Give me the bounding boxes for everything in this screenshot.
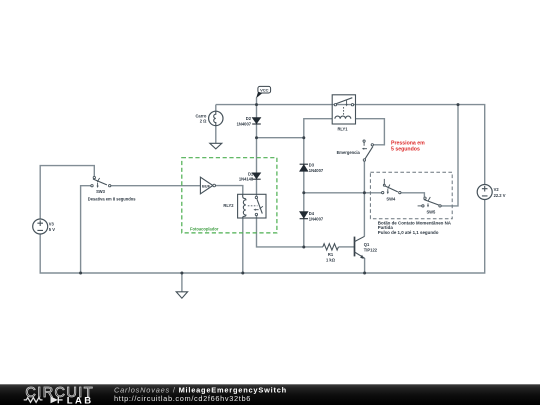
svg-text:SW4: SW4 [386, 197, 396, 202]
wire lamp top stub [215, 105, 217, 112]
wire RLY2 switch bottom to R1 [257, 215, 324, 247]
wire node D2 cathode to D3 anode column [257, 137, 304, 139]
wire Emergencia bottom down to Q1 collector [363, 161, 365, 236]
svg-text:1N4007: 1N4007 [309, 216, 324, 221]
wire RLY1 coil right pin to Emergencia switch [356, 119, 385, 145]
svg-text:V3: V3 [49, 222, 55, 227]
wire RLY1 coil left pin down through D3 D4 to R1 node [304, 119, 332, 247]
switch SW5 [418, 197, 442, 215]
wire BUF output to RLY2 coil top pin [215, 186, 243, 195]
diode D3 1N4007 [300, 163, 324, 173]
ground on bottom rail [176, 292, 187, 298]
VCC net flag [256, 86, 271, 98]
diode D1 1N4148 [239, 171, 261, 181]
wire SW5 right terminal up to top rail [441, 105, 458, 206]
svg-text:Pressiona em: Pressiona em [391, 140, 425, 146]
svg-text:Fotoacoplador: Fotoacoplador [190, 227, 219, 232]
svg-text:Emergencia: Emergencia [337, 150, 361, 155]
wire bottom rail [40, 200, 485, 274]
diode D4 1N4007 [300, 211, 324, 221]
opto-coupler dashed green box Fotoacoplador [182, 158, 277, 233]
svg-text:RLY1: RLY1 [337, 127, 348, 132]
wire RLY2 coil bottom pin to bottom rail [242, 218, 244, 273]
svg-text:LAB: LAB [67, 395, 94, 405]
wire D3-D4 node to SW4 left terminal [304, 192, 382, 194]
wire SW4 right terminal to SW5 [401, 193, 425, 198]
svg-text:1 kΩ: 1 kΩ [326, 257, 336, 262]
resistor R1 1 kOhm [323, 244, 339, 263]
diode D2 1N4007 [237, 116, 261, 126]
svg-text:Desativa em 8 segundos: Desativa em 8 segundos [88, 197, 137, 202]
svg-text:Q1: Q1 [364, 242, 370, 247]
red note Pressiona em 5 segundos [391, 140, 425, 152]
logo resistor zigzag [24, 398, 43, 403]
svg-text:RLY2: RLY2 [223, 203, 234, 208]
svg-text:http://circuitlab.com/cd2f66hv: http://circuitlab.com/cd2f66hv32tb6 [114, 394, 251, 403]
wire SW3 left throw down to bottom rail [81, 186, 92, 273]
svg-text:SW3: SW3 [96, 189, 106, 194]
wire VCC stub down through D2 and D1 to RLY2 switch [256, 98, 258, 198]
svg-text:Pulso de 1,0 até 1,1 segundo: Pulso de 1,0 até 1,1 segundo [378, 230, 439, 235]
dashed annotation box around SW4 SW5 [370, 172, 452, 219]
ground under lamp [210, 143, 222, 149]
svg-text:VCC: VCC [260, 88, 269, 93]
footer bar [0, 384, 540, 405]
relay RLY1 [332, 95, 355, 132]
wire top rail lamp to V2 [216, 105, 485, 185]
svg-text:SW5: SW5 [426, 210, 436, 215]
svg-text:1N4007: 1N4007 [309, 168, 324, 173]
buffer BUF [200, 177, 215, 194]
svg-text:5 segundos: 5 segundos [391, 147, 420, 153]
svg-text:V2: V2 [494, 187, 500, 192]
svg-text:2 Ω: 2 Ω [200, 119, 207, 124]
relay RLY2 (opto relay) [223, 194, 266, 218]
switch SW4 [382, 179, 401, 202]
voltage source V3 [33, 219, 56, 234]
wire lamp bottom to ground [215, 126, 217, 144]
transistor Q1 TIP122 [355, 236, 378, 259]
wire Q1 emitter to bottom rail [364, 258, 366, 273]
wire ground stem on bottom rail [181, 273, 183, 292]
junction node dots [79, 103, 459, 274]
wire V3 top lead to SW3 common [40, 166, 94, 220]
svg-text:22.2 V: 22.2 V [494, 193, 506, 198]
svg-text:TIP122: TIP122 [364, 248, 378, 253]
logo diode [51, 397, 59, 404]
svg-text:1N4148: 1N4148 [239, 177, 254, 182]
svg-text:5 V: 5 V [49, 227, 55, 232]
wire R1 to Q1 base [339, 246, 355, 248]
lamp Carro 2 ohm [195, 111, 223, 125]
note Botao de Contato [378, 220, 452, 235]
voltage source V2 [477, 185, 506, 200]
switch SW3 [88, 176, 137, 201]
svg-text:BUF: BUF [202, 183, 211, 188]
switch Emergencia [337, 140, 374, 161]
svg-text:1N4007: 1N4007 [237, 121, 252, 126]
svg-text:R1: R1 [328, 252, 334, 257]
wire SW3 right throw to BUF input [110, 185, 200, 187]
